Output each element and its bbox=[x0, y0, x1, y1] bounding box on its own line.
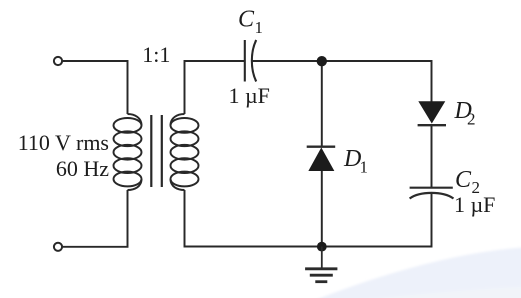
svg-text:1 µF: 1 µF bbox=[229, 83, 270, 108]
diode D1 (cathode bar on top, triangle pointing up) bbox=[307, 147, 336, 171]
svg-text:110 V rms: 110 V rms bbox=[18, 130, 109, 155]
ground symbol bbox=[305, 247, 337, 282]
wire node A to D2 branch bbox=[322, 61, 432, 102]
wire bottom-left terminal to primary bbox=[63, 190, 128, 247]
ground node junction dot (bottom) bbox=[317, 242, 327, 252]
svg-text:1 µF: 1 µF bbox=[454, 192, 495, 217]
diode D2 (triangle pointing down, cathode bar below) bbox=[418, 102, 446, 126]
svg-text:C: C bbox=[238, 7, 255, 33]
terminal T1 (top-left input) bbox=[54, 57, 62, 65]
capacitor C2 (flat top plate, curved bottom plate) bbox=[410, 188, 454, 199]
wire D2 to C2 bbox=[431, 125, 433, 187]
wire C1 to node A bbox=[252, 60, 322, 62]
wire secondary top to C1 bbox=[185, 61, 245, 114]
terminal T2 (bottom-left input) bbox=[54, 243, 62, 251]
node A junction dot (top) bbox=[317, 56, 327, 66]
wire top-left terminal to primary bbox=[63, 61, 128, 114]
wire secondary bottom to ground node bbox=[185, 190, 322, 247]
svg-text:1:1: 1:1 bbox=[142, 42, 170, 67]
capacitor C1 bbox=[245, 40, 256, 82]
svg-text:1: 1 bbox=[360, 158, 369, 177]
svg-text:C: C bbox=[455, 167, 472, 193]
svg-text:60 Hz: 60 Hz bbox=[56, 156, 109, 181]
wire C2 to bottom rail bbox=[322, 193, 432, 247]
transformer secondary winding L2 bbox=[171, 114, 199, 190]
svg-text:2: 2 bbox=[467, 110, 476, 129]
transformer primary winding L1 bbox=[114, 114, 142, 190]
wire node A down to D1 bbox=[321, 61, 323, 146]
svg-text:1: 1 bbox=[255, 18, 264, 37]
transformer core bbox=[151, 115, 162, 187]
wire D1 to bottom rail bbox=[321, 171, 323, 247]
